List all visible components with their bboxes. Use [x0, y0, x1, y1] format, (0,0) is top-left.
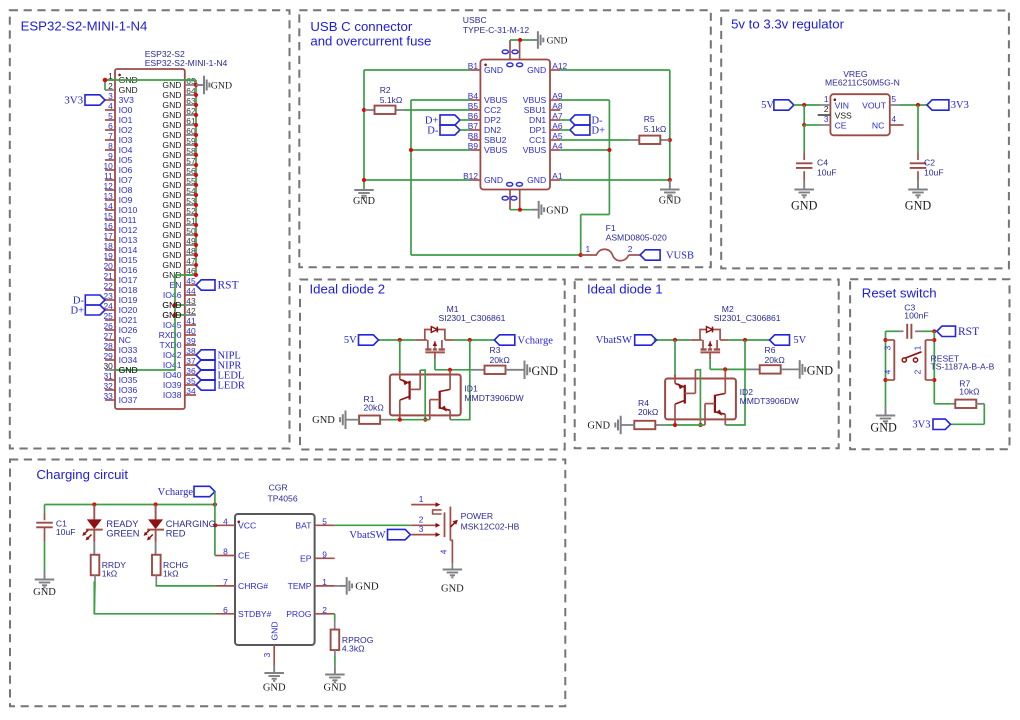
svg-text:BAT: BAT [295, 521, 312, 531]
svg-text:IO11: IO11 [119, 215, 137, 225]
svg-text:GND: GND [162, 130, 181, 140]
svg-text:IO1: IO1 [119, 115, 133, 125]
svg-text:20kΩ: 20kΩ [490, 355, 511, 365]
svg-text:20kΩ: 20kΩ [364, 403, 385, 413]
svg-text:SI2301_C306861: SI2301_C306861 [714, 313, 781, 323]
svg-text:32: 32 [103, 381, 113, 391]
svg-text:IO17: IO17 [119, 275, 138, 285]
svg-text:TXD0: TXD0 [160, 340, 182, 350]
svg-text:IO46: IO46 [163, 290, 182, 300]
svg-text:D+: D+ [70, 306, 84, 317]
svg-text:GND: GND [355, 581, 379, 593]
svg-text:GND: GND [162, 110, 181, 120]
svg-text:20: 20 [103, 261, 113, 271]
svg-text:IO13: IO13 [119, 235, 138, 245]
svg-text:IO6: IO6 [119, 165, 133, 175]
svg-text:GND: GND [162, 230, 181, 240]
svg-text:GND: GND [162, 240, 181, 250]
svg-text:DN2: DN2 [484, 125, 501, 135]
svg-text:GND: GND [532, 364, 559, 378]
svg-text:17: 17 [103, 231, 113, 241]
svg-text:IO41: IO41 [163, 360, 182, 370]
svg-text:13: 13 [103, 191, 113, 201]
svg-text:GREEN: GREEN [106, 529, 139, 539]
svg-text:3: 3 [108, 91, 113, 101]
svg-text:D-: D- [427, 125, 439, 136]
svg-text:IO16: IO16 [119, 265, 138, 275]
svg-text:1: 1 [322, 577, 327, 587]
svg-text:GND: GND [270, 621, 280, 640]
svg-text:VBUS: VBUS [523, 95, 547, 105]
svg-text:GND: GND [353, 196, 375, 207]
svg-text:4: 4 [439, 549, 449, 554]
svg-text:Vcharge: Vcharge [518, 335, 554, 346]
svg-text:3: 3 [262, 652, 272, 657]
svg-text:GND: GND [162, 310, 181, 320]
svg-text:1: 1 [419, 494, 424, 504]
svg-text:RED: RED [166, 529, 186, 539]
svg-text:5: 5 [891, 94, 896, 104]
svg-text:2: 2 [322, 605, 327, 615]
svg-text:42: 42 [186, 306, 196, 316]
svg-text:9: 9 [322, 549, 327, 559]
svg-text:IO38: IO38 [163, 390, 182, 400]
svg-text:GND: GND [162, 260, 181, 270]
svg-text:GND: GND [119, 365, 138, 375]
svg-text:5v to 3.3v regulator: 5v to 3.3v regulator [731, 17, 845, 32]
svg-text:VIN: VIN [835, 100, 849, 110]
svg-text:RST: RST [218, 280, 239, 292]
svg-text:USBC: USBC [463, 15, 487, 25]
svg-text:Reset switch: Reset switch [862, 286, 937, 301]
svg-text:DN1: DN1 [529, 115, 546, 125]
svg-text:GND: GND [162, 120, 181, 130]
svg-text:GND: GND [162, 170, 181, 180]
svg-text:CHRG#: CHRG# [238, 581, 268, 591]
svg-text:1: 1 [913, 345, 923, 350]
svg-text:3V3: 3V3 [64, 95, 83, 107]
svg-text:IO40: IO40 [163, 370, 182, 380]
svg-text:10uF: 10uF [924, 167, 944, 177]
svg-text:SBU2: SBU2 [484, 135, 507, 145]
svg-text:and overcurrent fuse: and overcurrent fuse [310, 34, 431, 49]
svg-text:37: 37 [186, 356, 196, 366]
svg-text:GND: GND [547, 36, 568, 47]
svg-text:5: 5 [108, 111, 113, 121]
svg-text:44: 44 [186, 286, 196, 296]
svg-text:POWER: POWER [461, 511, 493, 521]
svg-text:TP4056: TP4056 [268, 493, 298, 503]
svg-text:6: 6 [223, 605, 228, 615]
svg-text:5: 5 [322, 516, 327, 526]
svg-text:EP: EP [300, 554, 312, 564]
svg-text:GND: GND [162, 80, 181, 90]
svg-text:IO8: IO8 [119, 185, 133, 195]
svg-text:2: 2 [913, 369, 923, 374]
svg-text:IO15: IO15 [119, 255, 138, 265]
svg-text:GND: GND [162, 250, 181, 260]
svg-text:GND: GND [162, 100, 181, 110]
svg-text:B8: B8 [468, 131, 479, 141]
svg-text:5.1kΩ: 5.1kΩ [644, 124, 667, 134]
svg-text:2: 2 [108, 81, 113, 91]
svg-text:11: 11 [104, 171, 113, 181]
svg-text:R6: R6 [765, 345, 776, 355]
svg-text:GND: GND [870, 420, 897, 434]
svg-text:IO12: IO12 [119, 225, 138, 235]
svg-text:GND: GND [162, 200, 181, 210]
svg-text:TYPE-C-31-M-12: TYPE-C-31-M-12 [463, 25, 530, 35]
svg-text:VUSB: VUSB [666, 251, 694, 262]
svg-text:10kΩ: 10kΩ [959, 386, 980, 396]
svg-text:20kΩ: 20kΩ [765, 355, 786, 365]
svg-text:4: 4 [223, 516, 228, 526]
svg-text:IO18: IO18 [119, 285, 138, 295]
svg-text:IO7: IO7 [119, 175, 133, 185]
svg-text:GND: GND [162, 190, 181, 200]
svg-text:4.3kΩ: 4.3kΩ [342, 643, 365, 653]
svg-text:9: 9 [108, 151, 113, 161]
svg-text:LEDR: LEDR [218, 381, 245, 392]
svg-text:IO2: IO2 [119, 125, 133, 135]
svg-text:C4: C4 [817, 157, 828, 167]
svg-text:Charging circuit: Charging circuit [36, 467, 128, 482]
svg-text:3: 3 [824, 114, 829, 124]
svg-text:2: 2 [824, 104, 829, 114]
svg-text:IO36: IO36 [119, 385, 138, 395]
svg-text:34: 34 [186, 386, 196, 396]
svg-text:14: 14 [103, 201, 113, 211]
svg-text:3: 3 [882, 345, 892, 350]
svg-text:NC: NC [119, 335, 131, 345]
svg-text:6: 6 [108, 121, 113, 131]
svg-text:Ideal diode 2: Ideal diode 2 [310, 282, 386, 297]
svg-text:IO35: IO35 [119, 375, 138, 385]
svg-text:RST: RST [958, 326, 979, 338]
svg-text:16: 16 [103, 221, 113, 231]
svg-text:F1: F1 [606, 223, 616, 233]
svg-text:CC2: CC2 [484, 105, 501, 115]
svg-text:33: 33 [103, 391, 113, 401]
svg-text:VCC: VCC [238, 521, 256, 531]
svg-text:IO26: IO26 [119, 325, 138, 335]
svg-text:27: 27 [103, 331, 113, 341]
svg-text:100nF: 100nF [904, 311, 928, 321]
svg-text:CGR: CGR [269, 482, 288, 492]
svg-text:GND: GND [484, 65, 503, 75]
svg-text:VBUS: VBUS [523, 145, 547, 155]
svg-text:IO19: IO19 [119, 295, 138, 305]
svg-text:39: 39 [186, 336, 196, 346]
svg-text:Vcharge: Vcharge [158, 487, 194, 498]
svg-text:GND: GND [587, 421, 610, 432]
svg-text:CE: CE [835, 121, 847, 131]
svg-text:CE: CE [238, 551, 250, 561]
svg-text:MMDT3906DW: MMDT3906DW [464, 393, 524, 403]
svg-text:GND: GND [263, 682, 286, 693]
svg-text:8: 8 [223, 547, 228, 557]
svg-text:26: 26 [103, 321, 113, 331]
svg-text:5V: 5V [793, 335, 806, 346]
svg-text:GND: GND [162, 160, 181, 170]
svg-text:SBU1: SBU1 [524, 105, 547, 115]
svg-text:IO33: IO33 [119, 345, 138, 355]
svg-text:4: 4 [891, 114, 896, 124]
svg-text:IO39: IO39 [163, 380, 182, 390]
svg-text:VBUS: VBUS [484, 145, 508, 155]
svg-text:VbatSW: VbatSW [349, 530, 385, 541]
svg-text:18: 18 [103, 241, 113, 251]
svg-text:IO9: IO9 [119, 195, 133, 205]
svg-text:4: 4 [108, 101, 113, 111]
svg-text:GND: GND [211, 80, 232, 91]
svg-text:GND: GND [659, 195, 681, 206]
svg-text:GND: GND [546, 205, 568, 216]
svg-text:2: 2 [628, 244, 633, 254]
svg-text:12: 12 [103, 181, 113, 191]
svg-text:GND: GND [791, 199, 818, 213]
svg-text:3: 3 [419, 524, 424, 534]
svg-text:TS-1187A-B-A-B: TS-1187A-B-A-B [931, 361, 995, 371]
svg-text:21: 21 [103, 271, 113, 281]
svg-text:USB C connector: USB C connector [310, 19, 412, 34]
svg-text:GND: GND [905, 199, 932, 213]
svg-text:GND: GND [807, 364, 834, 378]
svg-text:5V: 5V [344, 335, 357, 346]
svg-text:30: 30 [103, 361, 113, 371]
svg-text:VSS: VSS [835, 111, 852, 121]
svg-text:25: 25 [103, 311, 113, 321]
svg-text:VbatSW: VbatSW [596, 335, 632, 346]
svg-text:IO20: IO20 [119, 305, 138, 315]
svg-text:43: 43 [186, 296, 196, 306]
svg-text:IO3: IO3 [119, 135, 133, 145]
svg-text:GND: GND [162, 180, 181, 190]
svg-text:GND: GND [527, 175, 546, 185]
svg-text:MSK12C02-HB: MSK12C02-HB [461, 522, 520, 532]
svg-text:GND: GND [162, 90, 181, 100]
svg-text:29: 29 [103, 351, 113, 361]
svg-text:DP1: DP1 [529, 125, 546, 135]
svg-text:20kΩ: 20kΩ [638, 407, 659, 417]
svg-text:GND: GND [162, 300, 181, 310]
svg-text:VOUT: VOUT [862, 100, 887, 110]
svg-text:IO42: IO42 [163, 350, 182, 360]
svg-text:IO5: IO5 [119, 155, 133, 165]
svg-text:5V: 5V [761, 100, 774, 111]
svg-text:ESP32-S2-MINI-1-N4: ESP32-S2-MINI-1-N4 [21, 19, 148, 34]
svg-text:NC: NC [872, 121, 884, 131]
svg-text:GND: GND [324, 682, 347, 693]
svg-text:38: 38 [186, 346, 196, 356]
svg-text:MMDT3906DW: MMDT3906DW [740, 396, 800, 406]
svg-text:10uF: 10uF [56, 527, 76, 537]
svg-text:IO14: IO14 [119, 245, 138, 255]
svg-text:8: 8 [108, 141, 113, 151]
svg-text:1kΩ: 1kΩ [102, 569, 118, 579]
svg-text:C2: C2 [924, 157, 935, 167]
svg-text:RXD0: RXD0 [159, 330, 182, 340]
svg-text:STDBY#: STDBY# [238, 609, 272, 619]
svg-text:1kΩ: 1kΩ [163, 569, 179, 579]
svg-text:A8: A8 [552, 101, 563, 111]
svg-text:GND: GND [312, 415, 335, 426]
svg-text:36: 36 [186, 366, 196, 376]
svg-text:10: 10 [103, 161, 113, 171]
svg-text:1: 1 [586, 244, 591, 254]
svg-text:ASMD0805-020: ASMD0805-020 [606, 233, 667, 243]
svg-text:15: 15 [103, 211, 113, 221]
svg-text:IO0: IO0 [119, 105, 133, 115]
svg-text:TEMP: TEMP [288, 581, 312, 591]
svg-text:1: 1 [824, 94, 829, 104]
svg-text:28: 28 [103, 341, 113, 351]
svg-text:22: 22 [103, 281, 113, 291]
svg-text:IO4: IO4 [119, 145, 133, 155]
svg-text:R5: R5 [644, 114, 655, 124]
svg-text:GND: GND [119, 85, 138, 95]
svg-text:GND: GND [484, 175, 503, 185]
svg-text:5.1kΩ: 5.1kΩ [380, 95, 403, 105]
svg-text:Ideal diode 1: Ideal diode 1 [587, 282, 663, 297]
svg-text:2: 2 [419, 515, 424, 525]
svg-text:CC1: CC1 [529, 135, 546, 145]
svg-text:41: 41 [186, 316, 196, 326]
svg-text:7: 7 [223, 577, 228, 587]
svg-text:3V3: 3V3 [912, 420, 930, 431]
svg-text:GND: GND [162, 210, 181, 220]
svg-text:45: 45 [186, 276, 196, 286]
svg-text:31: 31 [103, 371, 113, 381]
svg-text:3V3: 3V3 [951, 100, 969, 111]
svg-text:DP2: DP2 [484, 115, 501, 125]
svg-text:IO21: IO21 [119, 315, 138, 325]
svg-text:D+: D+ [592, 125, 606, 136]
svg-text:4: 4 [882, 369, 892, 374]
svg-text:GND: GND [162, 140, 181, 150]
svg-text:40: 40 [186, 326, 196, 336]
svg-text:SI2301_C306861: SI2301_C306861 [439, 313, 506, 323]
svg-text:3V3: 3V3 [119, 95, 135, 105]
svg-text:IO45: IO45 [163, 320, 182, 330]
svg-text:IO37: IO37 [119, 395, 138, 405]
svg-text:IO10: IO10 [119, 205, 138, 215]
svg-text:PROG: PROG [286, 609, 312, 619]
svg-text:VBUS: VBUS [484, 95, 508, 105]
svg-text:ESP32-S2-MINI-1-N4: ESP32-S2-MINI-1-N4 [145, 58, 228, 68]
svg-text:GND: GND [162, 220, 181, 230]
svg-text:R3: R3 [490, 345, 501, 355]
svg-text:GND: GND [441, 583, 464, 594]
svg-text:ME6211C50M5G-N: ME6211C50M5G-N [825, 78, 900, 88]
svg-text:19: 19 [103, 251, 113, 261]
svg-text:35: 35 [186, 376, 196, 386]
svg-text:7: 7 [108, 131, 113, 141]
svg-text:GND: GND [33, 587, 56, 598]
svg-text:10uF: 10uF [817, 167, 837, 177]
svg-text:GND: GND [527, 65, 546, 75]
svg-text:IO34: IO34 [119, 355, 138, 365]
svg-text:R2: R2 [380, 85, 391, 95]
svg-text:GND: GND [162, 150, 181, 160]
